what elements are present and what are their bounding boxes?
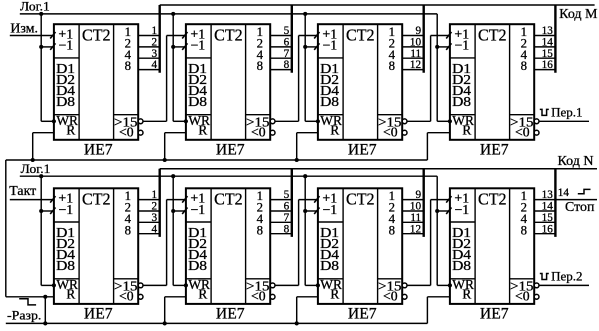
svg-text:2: 2 [152, 201, 158, 213]
svg-text:16: 16 [542, 223, 554, 235]
svg-text:R: R [462, 122, 471, 137]
svg-text:8: 8 [257, 59, 263, 73]
svg-text:16: 16 [542, 59, 554, 71]
svg-text:4: 4 [152, 59, 158, 71]
svg-text:Стоп: Стоп [565, 199, 595, 214]
svg-text:ИЕ7: ИЕ7 [480, 142, 509, 159]
svg-text:8: 8 [389, 59, 395, 73]
svg-text:<0: <0 [119, 289, 134, 304]
svg-text:CT2: CT2 [214, 25, 243, 44]
svg-text:ИЕ7: ИЕ7 [216, 306, 245, 323]
svg-text:8: 8 [257, 223, 263, 237]
svg-text:-Разр.: -Разр. [7, 308, 41, 323]
svg-text:D8: D8 [56, 258, 75, 273]
svg-text:CT2: CT2 [214, 190, 243, 209]
svg-text:D8: D8 [320, 94, 339, 109]
svg-text:<0: <0 [515, 125, 530, 140]
svg-text:4: 4 [152, 223, 158, 235]
svg-text:8: 8 [521, 59, 527, 73]
svg-text:R: R [330, 287, 339, 302]
svg-text:Изм.: Изм. [10, 20, 38, 35]
svg-text:11: 11 [410, 48, 421, 60]
svg-text:ИЕ7: ИЕ7 [216, 142, 245, 159]
svg-text:15: 15 [542, 48, 554, 60]
svg-text:D8: D8 [452, 258, 471, 273]
svg-text:Пер.1: Пер.1 [551, 105, 582, 120]
svg-text:7: 7 [284, 48, 290, 60]
svg-text:CT2: CT2 [346, 190, 375, 209]
svg-text:D8: D8 [452, 94, 471, 109]
svg-text:7: 7 [284, 212, 290, 224]
svg-text:6: 6 [284, 201, 290, 213]
svg-text:Лог.1: Лог.1 [21, 161, 51, 176]
svg-text:<0: <0 [515, 289, 530, 304]
svg-text:<0: <0 [383, 289, 398, 304]
svg-text:R: R [66, 287, 75, 302]
svg-text:9: 9 [416, 189, 422, 201]
svg-text:13: 13 [542, 25, 554, 37]
svg-text:CT2: CT2 [82, 25, 111, 44]
svg-text:12: 12 [410, 59, 421, 71]
svg-text:−1: −1 [190, 38, 205, 53]
svg-text:6: 6 [284, 37, 290, 49]
svg-text:5: 5 [284, 189, 290, 201]
svg-text:ИЕ7: ИЕ7 [84, 142, 113, 159]
svg-text:ИЕ7: ИЕ7 [348, 306, 377, 323]
svg-text:−1: −1 [322, 202, 337, 217]
svg-text:1: 1 [152, 25, 158, 37]
svg-text:8: 8 [125, 59, 131, 73]
svg-text:8: 8 [284, 223, 290, 235]
svg-text:CT2: CT2 [478, 190, 507, 209]
svg-text:8: 8 [125, 223, 131, 237]
svg-text:9: 9 [416, 25, 422, 37]
svg-text:10: 10 [410, 201, 422, 213]
svg-text:14: 14 [542, 37, 554, 49]
svg-text:8: 8 [521, 223, 527, 237]
svg-text:−1: −1 [190, 202, 205, 217]
svg-text:8: 8 [389, 223, 395, 237]
svg-text:13: 13 [542, 189, 554, 201]
svg-text:R: R [66, 122, 75, 137]
svg-text:CT2: CT2 [82, 190, 111, 209]
svg-text:R: R [330, 122, 339, 137]
svg-text:ИЕ7: ИЕ7 [348, 142, 377, 159]
svg-text:−1: −1 [454, 38, 469, 53]
svg-text:Такт: Такт [9, 183, 36, 198]
svg-text:−1: −1 [454, 202, 469, 217]
svg-text:15: 15 [542, 212, 554, 224]
svg-text:−1: −1 [58, 202, 73, 217]
svg-text:D8: D8 [320, 258, 339, 273]
svg-text:Код N: Код N [558, 153, 594, 168]
svg-text:D8: D8 [188, 258, 207, 273]
svg-text:1: 1 [152, 189, 158, 201]
svg-text:R: R [198, 122, 207, 137]
svg-text:CT2: CT2 [346, 25, 375, 44]
svg-text:R: R [198, 287, 207, 302]
svg-text:D8: D8 [188, 94, 207, 109]
svg-text:12: 12 [410, 223, 421, 235]
svg-text:−1: −1 [322, 38, 337, 53]
svg-text:D8: D8 [56, 94, 75, 109]
svg-text:Лог.1: Лог.1 [20, 0, 50, 14]
svg-text:Код М: Код М [559, 6, 597, 21]
svg-text:8: 8 [284, 59, 290, 71]
svg-text:10: 10 [410, 37, 422, 49]
svg-text:3: 3 [152, 48, 158, 60]
svg-text:−1: −1 [58, 38, 73, 53]
svg-text:2: 2 [152, 37, 158, 49]
svg-text:14: 14 [558, 187, 570, 199]
svg-text:<0: <0 [383, 125, 398, 140]
svg-text:<0: <0 [119, 125, 134, 140]
svg-text:Пер.2: Пер.2 [551, 269, 582, 284]
svg-text:5: 5 [284, 25, 290, 37]
svg-text:R: R [462, 287, 471, 302]
svg-text:<0: <0 [251, 289, 266, 304]
svg-text:CT2: CT2 [478, 25, 507, 44]
svg-text:11: 11 [410, 212, 421, 224]
svg-text:14: 14 [542, 201, 554, 213]
svg-text:ИЕ7: ИЕ7 [84, 306, 113, 323]
svg-text:3: 3 [152, 212, 158, 224]
svg-text:ИЕ7: ИЕ7 [480, 306, 509, 323]
svg-text:<0: <0 [251, 125, 266, 140]
